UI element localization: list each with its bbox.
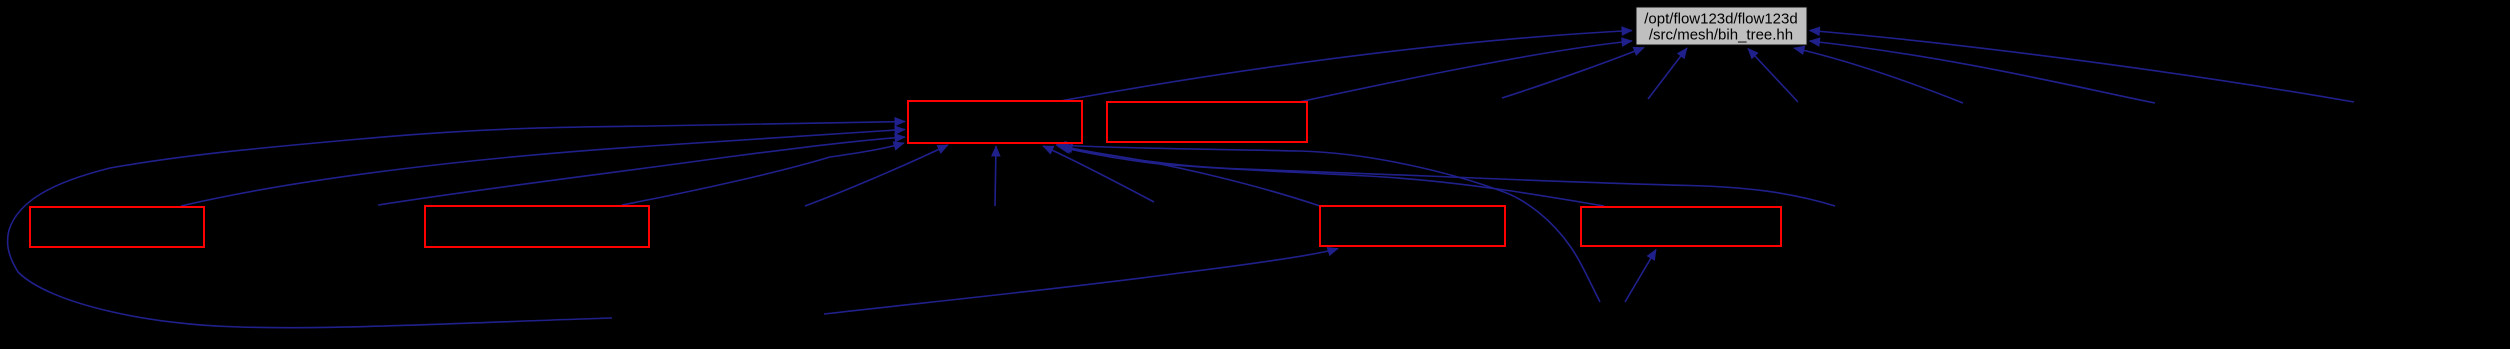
wire P2 to F — [1625, 250, 1656, 303]
svg-text:/src/mesh/bih_tree.hh: /src/mesh/bih_tree.hh — [1649, 27, 1793, 44]
wire N2b to main — [1748, 49, 1798, 103]
node A — [908, 101, 1082, 143]
wire M4 to A — [1062, 147, 1835, 207]
wire C to A — [181, 130, 905, 207]
wire loop P1 to A — [8, 122, 905, 328]
node D — [425, 206, 649, 247]
wire E to A — [1058, 147, 1320, 207]
wire M2a to A — [805, 145, 948, 206]
node B — [1107, 102, 1307, 142]
wire A to main — [1060, 31, 1632, 102]
wire N4 to main — [1810, 41, 2156, 103]
wire F to A — [1060, 148, 1604, 207]
wire P2 to A swoop — [1056, 145, 1600, 302]
wire B to main — [1299, 41, 1632, 102]
node F — [1581, 207, 1781, 246]
wire N5 to main — [1810, 31, 2355, 103]
wire M2b to A — [995, 146, 996, 206]
node main /opt/flow123d/flow123d/src/mesh/bih_tree.hh — [1636, 7, 1807, 45]
wire N1 to main — [1502, 48, 1644, 99]
wire N3 to main — [1794, 48, 1963, 103]
node E — [1320, 206, 1505, 246]
wire M1 to A — [378, 137, 905, 205]
svg-text:/opt/flow123d/flow123d: /opt/flow123d/flow123d — [1644, 11, 1797, 28]
wire P1 to E — [824, 249, 1338, 315]
node C — [30, 207, 204, 247]
wire M3 to A — [1043, 146, 1154, 202]
wire D to A — [622, 143, 904, 205]
wire N2 to main — [1648, 48, 1687, 99]
